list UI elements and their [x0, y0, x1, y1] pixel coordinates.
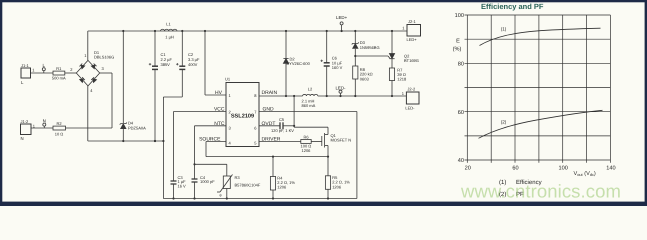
wire N input	[31, 127, 112, 129]
connector J2-1	[402, 19, 420, 42]
svg-text:B57860C104F: B57860C104F	[235, 183, 261, 188]
wire GND net	[259, 111, 357, 113]
inductor L1	[161, 22, 177, 40]
svg-text:N: N	[43, 118, 46, 123]
wire bridge pin1 to top rail	[87, 31, 89, 60]
svg-text:J2-2: J2-2	[407, 87, 416, 92]
chart y axis labels	[453, 13, 464, 164]
chart grid	[465, 15, 611, 163]
svg-text:60: 60	[458, 110, 464, 116]
wire drain sense	[293, 96, 295, 127]
chart legend	[499, 179, 542, 198]
op-amp U1 SSL2109	[199, 77, 281, 147]
resistor R7	[389, 67, 407, 97]
chart curve 2 PF	[479, 110, 603, 138]
svg-text:1 µH: 1 µH	[165, 35, 174, 40]
diode D2	[283, 30, 310, 97]
svg-text:0603: 0603	[360, 76, 370, 81]
svg-text:BT169G: BT169G	[404, 58, 419, 63]
node LED-	[335, 85, 346, 97]
svg-text:www.cntronics.com: www.cntronics.com	[460, 181, 621, 202]
connector J1-1	[21, 63, 35, 85]
svg-text:PDZ5A0A: PDZ5A0A	[128, 125, 146, 130]
svg-text:160 V: 160 V	[332, 65, 343, 70]
svg-text:R3: R3	[235, 175, 241, 180]
wire SOURCE net	[206, 141, 226, 143]
svg-text:LED+: LED+	[336, 15, 348, 20]
svg-text:LED-: LED-	[335, 85, 346, 90]
svg-text:120 pF, 1 KV: 120 pF, 1 KV	[271, 128, 294, 133]
svg-text:1000 pF: 1000 pF	[200, 179, 215, 184]
chart x axis labels	[465, 166, 616, 172]
connector J1-2	[21, 119, 36, 141]
bridge rectifier D1	[70, 50, 114, 93]
svg-text:1218: 1218	[397, 77, 407, 82]
svg-text:L2: L2	[308, 87, 313, 92]
capacitor C6	[321, 30, 343, 97]
wire HV feed	[204, 31, 206, 95]
thyristor Q2	[389, 30, 419, 68]
svg-text:(2): (2)	[501, 120, 507, 125]
svg-text:BYV26C-600: BYV26C-600	[287, 61, 311, 66]
svg-text:400V: 400V	[188, 62, 198, 67]
wire DRAIN net	[259, 95, 303, 97]
svg-text:HV: HV	[215, 90, 223, 96]
svg-text:1206: 1206	[302, 148, 312, 153]
zener D4	[120, 30, 146, 142]
zener D3	[352, 30, 380, 66]
svg-text:100: 100	[559, 166, 568, 172]
svg-text:1N5956BG: 1N5956BG	[360, 45, 380, 50]
svg-text:R1: R1	[56, 66, 62, 71]
svg-text:SSL2109: SSL2109	[231, 114, 254, 120]
svg-text:100: 100	[455, 13, 464, 19]
top rail	[88, 30, 407, 32]
wire L input	[31, 72, 77, 74]
capacitor C3	[171, 175, 187, 200]
minus bus	[88, 140, 164, 142]
thermistor R3	[217, 175, 261, 200]
svg-text:1206: 1206	[277, 185, 287, 190]
resistor R4	[270, 156, 295, 200]
svg-text:DBLS106G: DBLS106G	[94, 54, 114, 59]
svg-text:500 mA: 500 mA	[52, 75, 66, 80]
chart curve 1 efficiency	[480, 28, 601, 45]
wire NTC net	[195, 125, 227, 127]
svg-text:J1-1: J1-1	[21, 63, 30, 68]
resistor R5	[325, 157, 350, 200]
resistor R6	[301, 135, 322, 153]
svg-text:C5: C5	[279, 117, 285, 122]
node L	[42, 63, 45, 73]
resistor R1	[52, 66, 66, 80]
junction dots	[154, 140, 156, 142]
resistor R2	[53, 121, 66, 136]
svg-text:N: N	[21, 136, 24, 141]
svg-text:U1: U1	[225, 77, 231, 82]
svg-text:R6: R6	[303, 135, 309, 140]
inductor L2	[302, 87, 318, 108]
wire DRIVER net	[259, 141, 301, 143]
svg-text:(%): (%)	[453, 46, 462, 53]
svg-text:E: E	[456, 39, 460, 45]
node LED+ top	[336, 15, 348, 32]
wire L2 to J2-2	[318, 95, 407, 97]
capacitor C1	[149, 30, 173, 142]
svg-text:20: 20	[465, 166, 471, 172]
svg-text:385V: 385V	[161, 62, 171, 67]
svg-text:Efficiency and PF: Efficiency and PF	[481, 2, 544, 11]
svg-text:1206: 1206	[332, 184, 342, 189]
wire VCC net	[174, 111, 227, 113]
svg-text:(1): (1)	[501, 27, 507, 32]
resistor R8	[353, 66, 373, 97]
wire bridge pin4 to minus bus	[87, 86, 89, 141]
svg-text:J1-2: J1-2	[21, 119, 30, 124]
svg-text:80: 80	[458, 62, 464, 68]
svg-text:R2: R2	[56, 121, 62, 126]
wire Q2 gate	[355, 55, 388, 57]
svg-text:LED-: LED-	[405, 105, 415, 110]
capacitor C4	[192, 175, 216, 200]
svg-text:10 Ω: 10 Ω	[55, 131, 64, 136]
capacitor C5	[259, 117, 294, 133]
connector J2-2	[402, 87, 419, 111]
svg-text:860 mA: 860 mA	[302, 103, 316, 108]
svg-text:DRAIN: DRAIN	[262, 90, 278, 96]
svg-text:L1: L1	[166, 22, 171, 27]
svg-text:60: 60	[512, 166, 518, 172]
svg-text:J2-1: J2-1	[408, 19, 417, 24]
svg-text:140: 140	[606, 166, 615, 172]
svg-text:16 V: 16 V	[178, 184, 187, 189]
svg-text:θ: θ	[220, 194, 222, 198]
svg-text:LED+: LED+	[407, 37, 418, 42]
transistor Q1	[322, 133, 351, 158]
svg-text:40: 40	[458, 158, 464, 164]
wire N to bridge pin 3	[111, 73, 113, 128]
node N	[43, 118, 46, 128]
svg-text:MOSFET N: MOSFET N	[331, 138, 352, 143]
capacitor C2	[162, 30, 200, 142]
